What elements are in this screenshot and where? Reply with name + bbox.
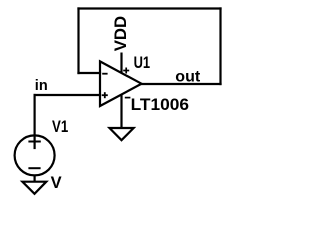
- wire: negative supply pin to ground: [120, 94, 122, 129]
- svg-text:U1: U1: [134, 53, 151, 72]
- wire: feedback left vertical: [77, 9, 79, 74]
- svg-text:in: in: [35, 78, 48, 94]
- svg-text:LT1006: LT1006: [131, 95, 189, 114]
- wire: node in vertical: [33, 95, 35, 148]
- ground under V1: [22, 182, 46, 194]
- wire: non-inverting input: [35, 94, 100, 96]
- wire: VDD supply pin: [120, 53, 122, 74]
- svg-text:out: out: [175, 69, 201, 86]
- op-amp U1: [100, 61, 142, 106]
- ground under op-amp: [110, 128, 134, 140]
- wire: feedback top horizontal: [79, 7, 221, 9]
- svg-text:V: V: [51, 174, 62, 192]
- wire: inverting input to feedback: [79, 72, 101, 74]
- wire: V1 to ground: [33, 175, 35, 182]
- wire: output: [142, 83, 221, 85]
- voltage source V1: [15, 135, 55, 175]
- svg-text:V1: V1: [52, 118, 68, 136]
- svg-text:VDD: VDD: [111, 16, 130, 51]
- wire: feedback right vertical: [219, 9, 221, 85]
